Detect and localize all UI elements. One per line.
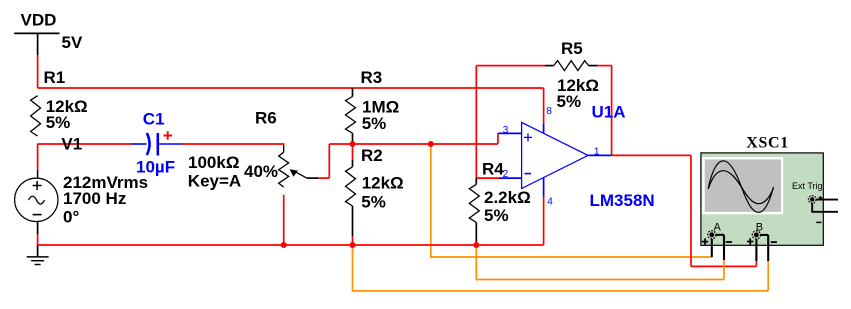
svg-text:R5: R5 xyxy=(561,39,583,58)
svg-text:A: A xyxy=(714,222,722,234)
svg-text:Ext Trig: Ext Trig xyxy=(792,181,823,191)
svg-text:C1: C1 xyxy=(143,110,165,129)
svg-text:B: B xyxy=(756,222,763,234)
svg-text:U1A: U1A xyxy=(592,103,626,122)
svg-text:LM358N: LM358N xyxy=(590,191,655,210)
svg-text:100kΩ: 100kΩ xyxy=(188,153,239,172)
svg-text:0°: 0° xyxy=(63,207,79,226)
svg-text:8: 8 xyxy=(546,106,552,117)
svg-text:5V: 5V xyxy=(62,33,83,52)
svg-text:XSC1: XSC1 xyxy=(746,135,789,152)
svg-text:5%: 5% xyxy=(362,114,387,133)
svg-text:R2: R2 xyxy=(361,146,383,165)
svg-text:3: 3 xyxy=(503,125,509,136)
svg-text:R4: R4 xyxy=(482,160,504,179)
svg-text:Key=A: Key=A xyxy=(188,172,241,191)
svg-text:R1: R1 xyxy=(44,68,66,87)
svg-text:V1: V1 xyxy=(61,134,82,153)
svg-text:5%: 5% xyxy=(46,113,71,132)
svg-text:2.2kΩ: 2.2kΩ xyxy=(484,188,531,207)
svg-text:10µF: 10µF xyxy=(136,158,175,177)
svg-text:1: 1 xyxy=(594,147,600,158)
svg-text:5%: 5% xyxy=(557,92,582,111)
svg-text:5%: 5% xyxy=(361,193,386,212)
svg-text:40%: 40% xyxy=(244,162,278,181)
svg-text:VDD: VDD xyxy=(21,11,57,30)
svg-text:12kΩ: 12kΩ xyxy=(362,174,404,193)
svg-text:R6: R6 xyxy=(255,108,277,127)
svg-text:2: 2 xyxy=(503,169,509,180)
svg-text:R3: R3 xyxy=(361,68,383,87)
svg-text:1700 Hz: 1700 Hz xyxy=(63,189,126,208)
svg-text:4: 4 xyxy=(547,197,553,208)
svg-text:5%: 5% xyxy=(484,206,509,225)
